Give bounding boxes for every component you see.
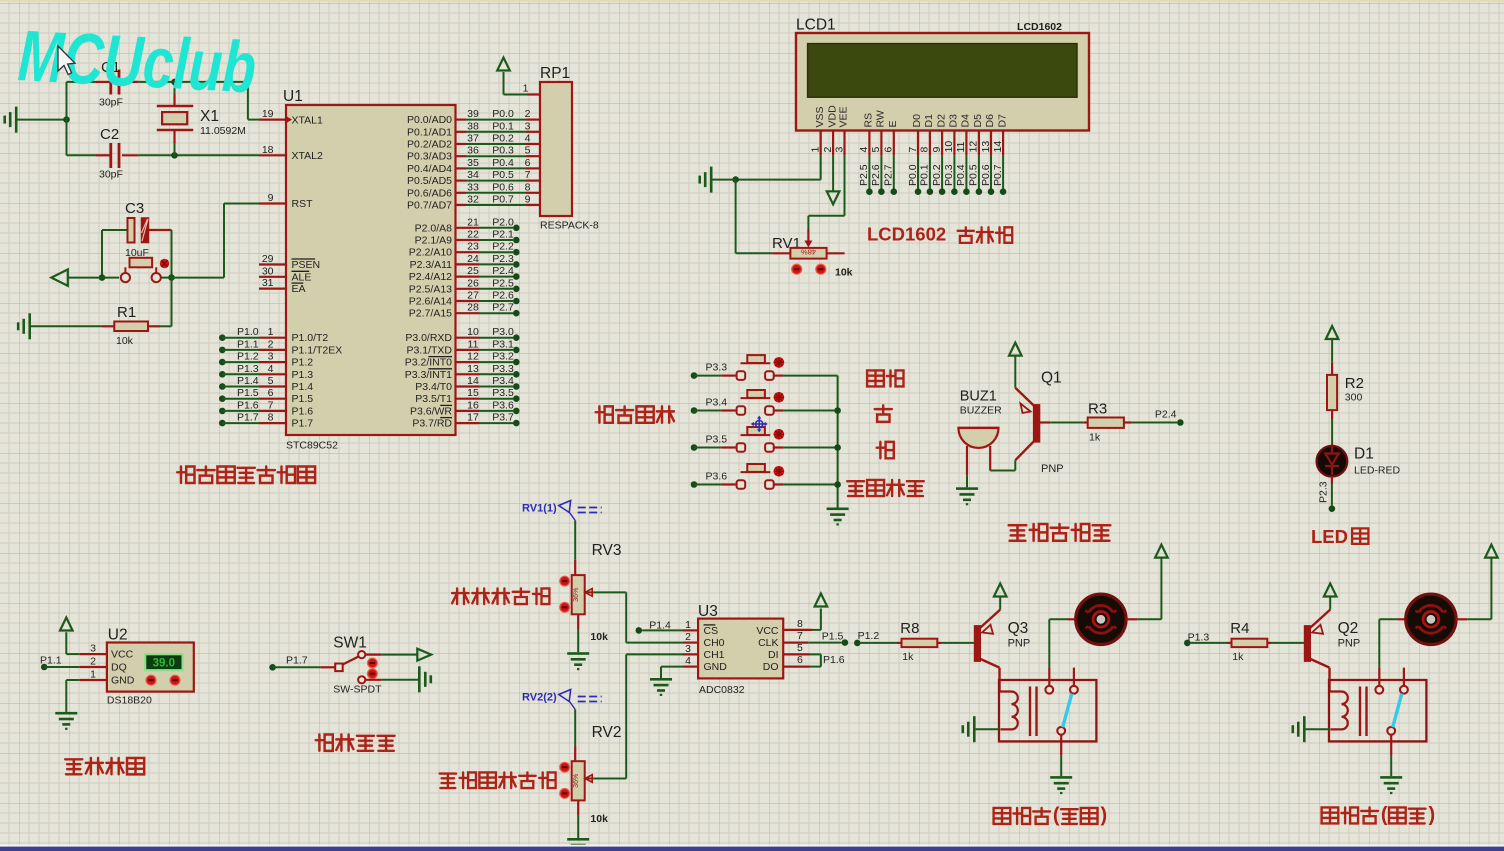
svg-text:P3.7: P3.7 (492, 412, 514, 424)
svg-text:2: 2 (525, 108, 531, 120)
svg-text:3: 3 (685, 643, 691, 655)
svg-text:PNP: PNP (1008, 638, 1031, 650)
svg-text:P0.2: P0.2 (492, 133, 514, 145)
svg-text:P1.3: P1.3 (237, 363, 259, 375)
svg-text:P3.0/RXD: P3.0/RXD (405, 332, 452, 344)
svg-text:CLK: CLK (758, 637, 778, 649)
svg-text:D1: D1 (1354, 446, 1374, 463)
svg-text:CS: CS (704, 625, 719, 637)
svg-text:RS: RS (863, 113, 875, 128)
svg-text:P3.6: P3.6 (706, 471, 728, 483)
svg-text:300: 300 (1345, 392, 1363, 404)
svg-text:28: 28 (467, 302, 479, 314)
svg-text:4: 4 (858, 147, 870, 153)
svg-text:PNP: PNP (1338, 638, 1361, 650)
svg-text:P3.3: P3.3 (706, 362, 728, 374)
svg-text:P1.0/T2: P1.0/T2 (292, 332, 329, 344)
svg-text:8: 8 (525, 181, 531, 193)
svg-text:P0.1: P0.1 (919, 164, 931, 186)
svg-text:P0.4: P0.4 (492, 157, 514, 169)
svg-text:P0.0: P0.0 (492, 108, 514, 120)
svg-text:P3.2: P3.2 (492, 351, 514, 363)
svg-text:24: 24 (467, 253, 479, 265)
svg-text:18: 18 (262, 144, 274, 156)
svg-text:RV2: RV2 (592, 724, 622, 741)
svg-text:LED: LED (1311, 526, 1348, 547)
svg-text:LCD1602: LCD1602 (1017, 21, 1062, 33)
svg-text:P3.5: P3.5 (706, 434, 728, 446)
svg-text:SW1: SW1 (333, 635, 367, 652)
svg-text:1k: 1k (1232, 651, 1244, 663)
svg-text:DO: DO (763, 661, 779, 673)
svg-text:P3.0: P3.0 (492, 326, 514, 338)
svg-text:27: 27 (467, 290, 479, 302)
svg-text:VSS: VSS (814, 106, 826, 127)
svg-text:P3.2/INT0: P3.2/INT0 (405, 357, 452, 369)
svg-text:P2.7: P2.7 (492, 302, 514, 314)
svg-text:17: 17 (467, 412, 479, 424)
svg-text:11.0592M: 11.0592M (200, 125, 246, 137)
svg-text:P1.5: P1.5 (822, 631, 844, 643)
svg-text:GND: GND (704, 661, 728, 673)
svg-text:5: 5 (268, 375, 274, 387)
svg-text:P1.6: P1.6 (823, 654, 845, 666)
svg-text:P1.2: P1.2 (858, 630, 880, 642)
svg-text:P1.3: P1.3 (292, 369, 314, 381)
svg-text:8: 8 (797, 618, 803, 630)
svg-text:7: 7 (797, 630, 803, 642)
svg-text:P2.6/A14: P2.6/A14 (409, 296, 452, 308)
svg-text:C2: C2 (100, 126, 119, 143)
svg-text:P1.4: P1.4 (237, 375, 259, 387)
svg-text:P0.7: P0.7 (992, 164, 1004, 186)
svg-text:XTAL1: XTAL1 (292, 115, 323, 127)
svg-text:P2.0/A8: P2.0/A8 (415, 222, 453, 234)
svg-text:P0.0/AD0: P0.0/AD0 (407, 114, 452, 126)
svg-text:P3.3/INT1: P3.3/INT1 (405, 369, 452, 381)
svg-text:6: 6 (268, 387, 274, 399)
svg-text:9: 9 (268, 192, 274, 204)
svg-text:ADC0832: ADC0832 (699, 684, 745, 696)
svg-text:VCC: VCC (756, 625, 779, 637)
svg-text:P0.3/AD3: P0.3/AD3 (407, 151, 452, 163)
svg-text:MCUclub: MCUclub (16, 16, 258, 108)
svg-text:D4: D4 (960, 114, 972, 128)
svg-text:36: 36 (467, 145, 479, 157)
svg-text:6: 6 (525, 157, 531, 169)
svg-text:P0.7/AD7: P0.7/AD7 (407, 200, 452, 212)
svg-text:7: 7 (907, 147, 919, 153)
svg-text:5: 5 (525, 145, 531, 157)
svg-text:P1.4: P1.4 (292, 381, 314, 393)
svg-text:P3.1/TXD: P3.1/TXD (406, 344, 452, 356)
svg-text:3: 3 (90, 643, 96, 655)
svg-text:P3.1: P3.1 (492, 338, 514, 350)
svg-text:P2.5/A13: P2.5/A13 (409, 283, 452, 295)
svg-text:15: 15 (467, 387, 479, 399)
svg-text:U2: U2 (108, 627, 128, 644)
svg-text:3: 3 (268, 351, 274, 363)
svg-text:RP1: RP1 (540, 65, 570, 82)
svg-text:P2.7: P2.7 (883, 164, 895, 186)
svg-text:P0.5/AD5: P0.5/AD5 (407, 175, 452, 187)
svg-text:6: 6 (883, 147, 895, 153)
svg-text:P2.3: P2.3 (492, 253, 514, 265)
svg-text:P1.1/T2EX: P1.1/T2EX (292, 344, 343, 356)
svg-text:D1: D1 (923, 114, 935, 128)
svg-text:P0.2/AD2: P0.2/AD2 (407, 139, 452, 151)
svg-text:R3: R3 (1088, 401, 1107, 418)
svg-text:P3.4: P3.4 (706, 397, 728, 409)
svg-text:P2.2: P2.2 (492, 241, 514, 253)
svg-text:LCD1: LCD1 (796, 17, 836, 34)
svg-text:P0.6/AD6: P0.6/AD6 (407, 187, 452, 199)
svg-text:P2.5: P2.5 (858, 164, 870, 186)
svg-text:(: ( (1381, 804, 1388, 826)
svg-text:D5: D5 (972, 114, 984, 128)
svg-text:P2.7/A15: P2.7/A15 (409, 308, 452, 320)
svg-text:P1.5: P1.5 (292, 393, 314, 405)
svg-text:PSEN: PSEN (292, 259, 321, 271)
svg-text:37: 37 (467, 133, 479, 145)
svg-text:35: 35 (467, 157, 479, 169)
svg-text:9: 9 (931, 147, 943, 153)
svg-text:P0.5: P0.5 (968, 164, 980, 186)
svg-text:8: 8 (919, 147, 931, 153)
svg-text:R2: R2 (1345, 375, 1364, 392)
svg-text:1: 1 (810, 147, 822, 153)
svg-text:P2.0: P2.0 (492, 216, 514, 228)
svg-text:P0.4: P0.4 (955, 164, 967, 186)
svg-text:P1.2: P1.2 (237, 351, 259, 363)
svg-text:P0.5: P0.5 (492, 169, 514, 181)
svg-text:P3.7/RD: P3.7/RD (412, 418, 452, 430)
svg-text:P2.5: P2.5 (492, 277, 514, 289)
svg-text:48%: 48% (801, 248, 816, 257)
svg-text:10k: 10k (835, 267, 853, 279)
svg-text:RST: RST (292, 198, 314, 210)
svg-text:5: 5 (797, 642, 803, 654)
svg-text:5: 5 (870, 147, 882, 153)
svg-text:25: 25 (467, 265, 479, 277)
svg-text:1k: 1k (1089, 432, 1101, 444)
svg-text:P3.4: P3.4 (492, 375, 514, 387)
svg-text:P3.6/WR: P3.6/WR (410, 405, 452, 417)
svg-text:P2.4/A12: P2.4/A12 (409, 271, 452, 283)
svg-text:P0.7: P0.7 (492, 194, 514, 206)
svg-text:STC89C52: STC89C52 (286, 440, 338, 452)
svg-text:10k: 10k (590, 631, 608, 643)
svg-text:P0.6: P0.6 (980, 164, 992, 186)
svg-text:P2.1/A9: P2.1/A9 (415, 235, 453, 247)
svg-text:Q3: Q3 (1008, 620, 1029, 637)
svg-text:EA: EA (292, 283, 306, 295)
svg-text:PNP: PNP (1041, 463, 1064, 475)
svg-text:P0.4/AD4: P0.4/AD4 (407, 163, 452, 175)
svg-text:14: 14 (992, 141, 1004, 153)
svg-text:P0.2: P0.2 (931, 164, 943, 186)
svg-text:D2: D2 (935, 114, 947, 128)
svg-text:30pF: 30pF (99, 169, 123, 181)
svg-text:36%: 36% (573, 774, 580, 788)
svg-text:8: 8 (268, 412, 274, 424)
svg-text:VEE: VEE (838, 106, 850, 127)
svg-text:14: 14 (467, 375, 479, 387)
svg-text:P0.3: P0.3 (943, 164, 955, 186)
svg-text:D0: D0 (911, 114, 923, 128)
svg-text:R1: R1 (117, 304, 136, 321)
svg-text:): ) (1428, 804, 1435, 826)
svg-text:3: 3 (833, 147, 845, 153)
svg-text:P3.5: P3.5 (492, 387, 514, 399)
svg-text:13: 13 (980, 141, 992, 153)
svg-text:22: 22 (467, 229, 479, 241)
svg-text:10k: 10k (590, 813, 608, 825)
svg-text:12: 12 (968, 141, 980, 153)
svg-text:P2.2/A10: P2.2/A10 (409, 247, 452, 259)
svg-text:16: 16 (467, 399, 479, 411)
svg-text:): ) (1100, 805, 1107, 827)
svg-text:6: 6 (797, 654, 803, 666)
svg-text:11: 11 (468, 338, 479, 350)
svg-text:P2.6: P2.6 (492, 290, 514, 302)
svg-text:XTAL2: XTAL2 (292, 150, 323, 162)
svg-text:E: E (887, 120, 899, 127)
svg-text:2: 2 (822, 147, 834, 153)
svg-text:DS18B20: DS18B20 (107, 695, 152, 707)
svg-text:P1.6: P1.6 (292, 405, 314, 417)
svg-text:3: 3 (525, 120, 531, 132)
svg-text:10k: 10k (116, 335, 134, 347)
svg-text:P1.7: P1.7 (292, 418, 314, 430)
svg-text:P0.6: P0.6 (492, 181, 514, 193)
svg-text:P2.1: P2.1 (492, 229, 514, 241)
svg-text:21: 21 (467, 216, 479, 228)
svg-text:P1.6: P1.6 (237, 399, 259, 411)
svg-text:RESPACK-8: RESPACK-8 (540, 220, 599, 232)
svg-text:36%: 36% (573, 588, 580, 602)
svg-text:VCC: VCC (111, 649, 134, 661)
svg-text:10: 10 (943, 141, 955, 153)
svg-text:P2.3: P2.3 (1318, 481, 1330, 503)
svg-text:Q1: Q1 (1041, 370, 1062, 387)
svg-text:P1.1: P1.1 (237, 338, 259, 350)
svg-text:P2.6: P2.6 (870, 164, 882, 186)
svg-text:P3.4/T0: P3.4/T0 (415, 381, 452, 393)
svg-text:P1.7: P1.7 (286, 654, 308, 666)
svg-text:P2.4: P2.4 (1155, 409, 1177, 421)
svg-text:D6: D6 (984, 114, 996, 128)
svg-text:1: 1 (90, 669, 96, 681)
svg-text:1: 1 (523, 83, 529, 95)
svg-text:R8: R8 (900, 620, 919, 637)
svg-text:P1.5: P1.5 (237, 387, 259, 399)
svg-text:LCD1602: LCD1602 (867, 224, 946, 245)
svg-text:D7: D7 (996, 114, 1008, 128)
svg-text:32: 32 (467, 194, 479, 206)
svg-text:P0.0: P0.0 (907, 164, 919, 186)
svg-text:BUZ1: BUZ1 (960, 389, 997, 405)
svg-text:RV2(2): RV2(2) (522, 692, 557, 704)
svg-text:SW-SPDT: SW-SPDT (333, 684, 382, 696)
svg-text:CH0: CH0 (704, 637, 725, 649)
svg-text:(: ( (1053, 805, 1060, 827)
svg-text:R4: R4 (1230, 620, 1249, 637)
svg-text:VDD: VDD (826, 105, 838, 128)
svg-text:P1.7: P1.7 (237, 412, 259, 424)
svg-text:1k: 1k (902, 651, 914, 663)
svg-text:2: 2 (685, 631, 691, 643)
svg-text:P2.3/A11: P2.3/A11 (410, 259, 453, 271)
svg-text:ALE: ALE (292, 271, 312, 283)
svg-text:P0.1: P0.1 (492, 120, 514, 132)
svg-text:GND: GND (111, 675, 135, 687)
svg-text:P1.1: P1.1 (40, 654, 62, 666)
svg-text:23: 23 (467, 241, 479, 253)
svg-text:P0.3: P0.3 (492, 145, 514, 157)
svg-text:7: 7 (525, 169, 531, 181)
svg-text:10: 10 (467, 326, 479, 338)
svg-text:U1: U1 (283, 88, 303, 105)
svg-text:2: 2 (90, 656, 96, 668)
svg-text:P2.4: P2.4 (492, 265, 514, 277)
svg-text:13: 13 (467, 363, 479, 375)
svg-text:29: 29 (262, 253, 274, 265)
svg-text:11: 11 (955, 141, 967, 152)
svg-text:P3.3: P3.3 (492, 363, 514, 375)
svg-text:U3: U3 (698, 603, 718, 620)
svg-text:33: 33 (467, 181, 479, 193)
svg-text:9: 9 (525, 194, 531, 206)
svg-text:Q2: Q2 (1338, 620, 1359, 637)
svg-text:RV3: RV3 (592, 542, 622, 559)
svg-text:P0.1/AD1: P0.1/AD1 (407, 126, 452, 138)
svg-text:4: 4 (525, 133, 531, 145)
svg-text:P1.4: P1.4 (649, 620, 671, 632)
svg-text:30: 30 (262, 265, 274, 277)
svg-text:31: 31 (262, 277, 274, 289)
svg-text:4: 4 (268, 363, 274, 375)
svg-text:RV1(1): RV1(1) (522, 503, 557, 515)
svg-text:P1.2: P1.2 (292, 357, 314, 369)
svg-text:4: 4 (685, 655, 691, 667)
svg-text:38: 38 (467, 120, 479, 132)
svg-text:CH1: CH1 (704, 649, 725, 661)
svg-text:7: 7 (268, 399, 274, 411)
svg-text:P3.5/T1: P3.5/T1 (415, 393, 452, 405)
svg-text:P1.3: P1.3 (1188, 631, 1210, 643)
svg-text:LED-RED: LED-RED (1354, 465, 1401, 477)
svg-text:X1: X1 (200, 108, 219, 125)
svg-text:D3: D3 (948, 114, 960, 128)
svg-text:C3: C3 (125, 200, 144, 217)
svg-text:P3.6: P3.6 (492, 399, 514, 411)
svg-text:1: 1 (685, 619, 691, 631)
svg-text:DI: DI (768, 649, 779, 661)
svg-text:34: 34 (467, 169, 479, 181)
svg-text:19: 19 (262, 108, 274, 120)
svg-text:DQ: DQ (111, 662, 127, 674)
svg-text:BUZZER: BUZZER (960, 405, 1002, 417)
svg-text:P1.0: P1.0 (237, 326, 259, 338)
svg-text:1: 1 (268, 326, 274, 338)
svg-text:2: 2 (268, 338, 274, 350)
svg-text:RW: RW (875, 110, 887, 127)
svg-text:39: 39 (467, 108, 479, 120)
svg-text:26: 26 (467, 277, 479, 289)
svg-text:39.0: 39.0 (153, 657, 175, 669)
svg-text:12: 12 (467, 351, 479, 363)
